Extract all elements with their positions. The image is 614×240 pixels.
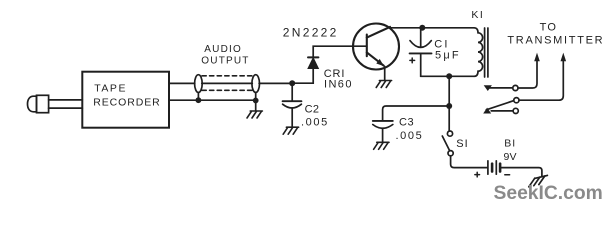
ground: battery negative (slanted) (529, 175, 548, 186)
wire: collector rail to relay (390, 27, 475, 29)
plug P1 (phono plug into tape recorder) (28, 95, 83, 112)
relay K1 core (485, 28, 488, 77)
svg-text:.005: .005 (301, 117, 329, 129)
ground: emitter (376, 81, 391, 88)
svg-text:TO: TO (540, 22, 557, 34)
svg-text:SeekIC.com: SeekIC.com (494, 183, 603, 204)
svg-text:2N2222: 2N2222 (283, 26, 339, 40)
wire: branch down from bottom rail (448, 76, 450, 106)
junction: bottom rail branch (446, 73, 452, 79)
junction: right shield (253, 98, 259, 104)
label B1 9V (504, 137, 517, 163)
wire: shield to ground (255, 101, 257, 111)
wire: emitter to ground (384, 67, 386, 80)
relay contact set 2 (armature, lower) (483, 98, 519, 114)
junction: collector rail / C1 (419, 25, 425, 31)
label C2 .005 (301, 103, 329, 128)
wire: bottom rail (C1 to relay coil) (421, 75, 474, 77)
svg-text:.005: .005 (396, 130, 424, 142)
shielded cable shield outline (dashed) (202, 76, 254, 91)
wire: battery to chassis ground (500, 168, 542, 176)
plus mark of C1 (410, 58, 415, 63)
wire: shield return from recorder bottom (169, 99, 256, 101)
capacitor C3 (373, 121, 393, 142)
label C3 .005 (396, 117, 424, 142)
relay K1 coil (474, 28, 483, 77)
node A junction (C2 / CR1 / input) (289, 80, 295, 86)
wire: cable center conductor to node A (259, 82, 292, 84)
ground: C3 (374, 142, 389, 149)
wire: CR1 cathode to base (313, 46, 367, 57)
wire: node A to diode CR1 (295, 69, 313, 84)
svg-text:AUDIO: AUDIO (204, 44, 242, 55)
svg-text:TAPE: TAPE (94, 83, 127, 95)
label C1 5uF (434, 39, 461, 62)
diode CR1 (anode up) (308, 57, 318, 68)
svg-text:C2: C2 (305, 103, 320, 115)
svg-text:OUTPUT: OUTPUT (201, 56, 249, 67)
capacitor C2 (283, 85, 302, 127)
junction: lower rail node (446, 103, 452, 109)
tape recorder box (82, 72, 169, 128)
wire: recorder top output to cable left end (169, 82, 195, 84)
minus mark of B1 (505, 174, 510, 176)
svg-text:IN60: IN60 (324, 79, 353, 91)
svg-text:TRANSMITTER: TRANSMITTER (507, 34, 604, 46)
plus mark of B1 (475, 172, 480, 177)
svg-text:9V: 9V (504, 151, 517, 163)
battery B1 (488, 161, 500, 174)
svg-text:C3: C3 (399, 117, 414, 129)
transistor Q1 2N2222 (353, 24, 399, 70)
capacitor C1 (410, 30, 432, 76)
svg-text:SI: SI (456, 138, 468, 150)
ground: cable shield (247, 111, 262, 118)
cable center conductor (202, 82, 253, 84)
label AUDIO OUTPUT (201, 44, 249, 66)
junction: left shield (196, 97, 202, 103)
wire: left shield stub (197, 93, 199, 101)
wire: lower rail to C3 (383, 106, 450, 121)
label CR1 IN60 (324, 68, 353, 91)
relay contact set 1 (upper) (484, 85, 518, 91)
label TO TRANSMITTER (507, 22, 604, 47)
label TAPE RECORDER (93, 83, 160, 109)
svg-text:BI: BI (504, 137, 516, 149)
svg-text:KI: KI (471, 9, 484, 21)
svg-text:RECORDER: RECORDER (93, 97, 160, 109)
wire: right shield stub (255, 93, 257, 101)
shielded cable right end (252, 75, 260, 93)
wire: contact 1 to transmitter (arrow) (518, 61, 537, 89)
wire: contact 2 to transmitter (arrow) (519, 61, 563, 101)
wire: S1 to battery (451, 156, 487, 168)
switch S1 (442, 109, 453, 156)
ground: C2 (283, 127, 298, 134)
svg-text:5μF: 5μF (435, 49, 461, 61)
shielded cable left end (195, 75, 203, 93)
